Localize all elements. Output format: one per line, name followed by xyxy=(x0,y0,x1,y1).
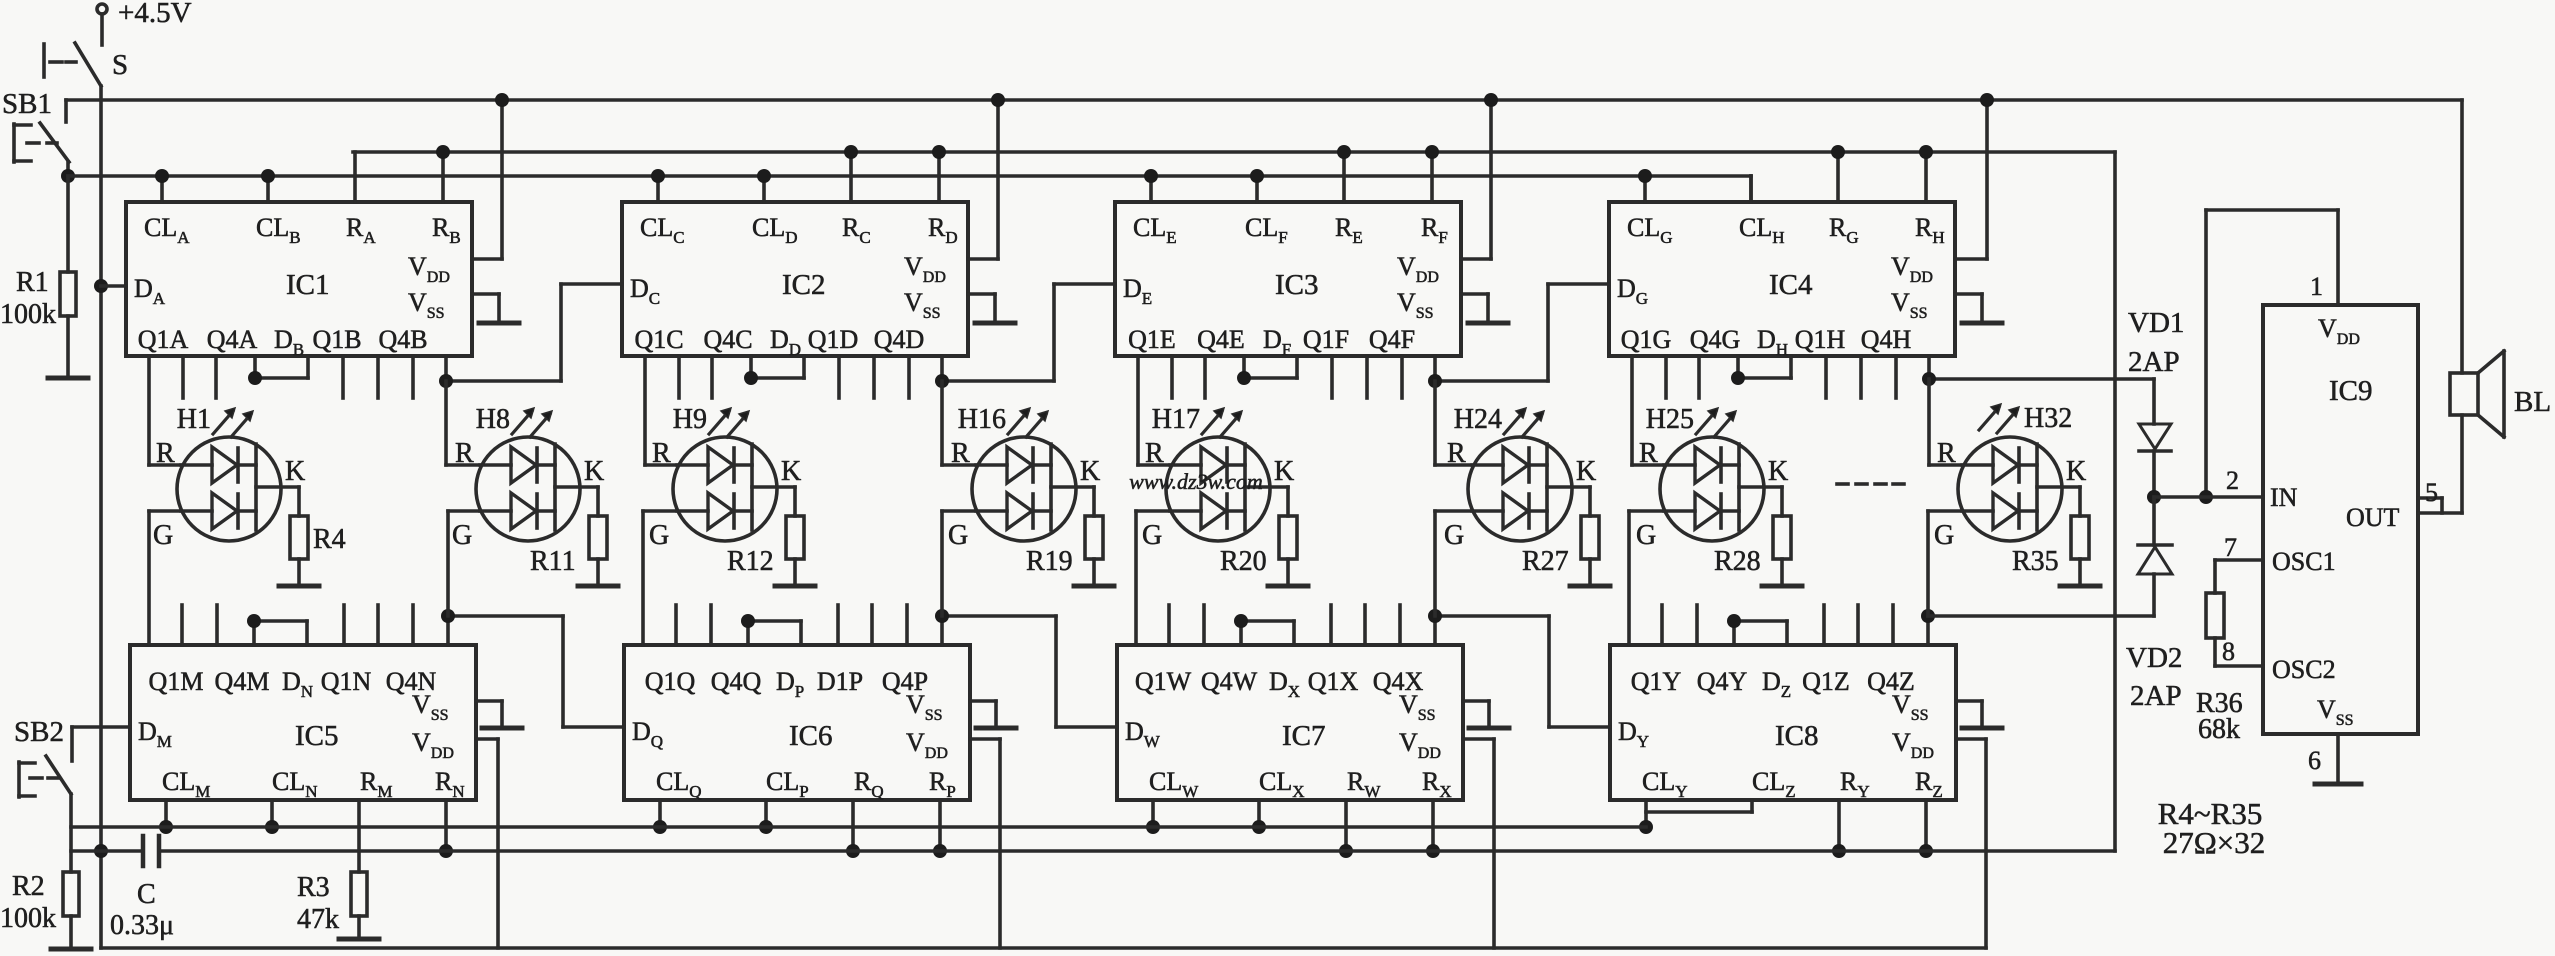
svg-text:K: K xyxy=(1274,456,1294,487)
svg-text:8: 8 xyxy=(2222,637,2235,666)
svg-text:G: G xyxy=(1934,520,1954,551)
svg-text:DD: DD xyxy=(770,325,801,359)
junction +4.5V to reset bus xyxy=(94,844,108,858)
wire IC4 CLG riser xyxy=(1643,176,1647,202)
wire IC9 pin6 VSS xyxy=(2336,734,2340,783)
wire H1 R input xyxy=(147,356,151,465)
junction DF xyxy=(1237,371,1251,385)
junction on clock bus xyxy=(159,820,173,834)
svg-text:DX: DX xyxy=(1269,667,1300,701)
svg-text:RZ: RZ xyxy=(1915,767,1943,801)
wire H9 G drop xyxy=(641,511,645,645)
svg-text:+4.5V: +4.5V xyxy=(118,0,192,29)
svg-text:H16: H16 xyxy=(958,404,1006,435)
junction on reset bus xyxy=(846,844,860,858)
resistor R2 xyxy=(63,872,79,916)
svg-text:CLC: CLC xyxy=(640,213,685,247)
diode VD2 xyxy=(2152,497,2156,545)
wire H16 K output xyxy=(1051,485,1094,489)
svg-text:CLM: CLM xyxy=(162,767,210,801)
svg-text:100k: 100k xyxy=(0,903,56,934)
ground xyxy=(2060,584,2100,589)
wire IC8 RZ drop xyxy=(1924,800,1928,851)
wire IC5 RN drop xyxy=(444,800,448,851)
svg-text:VSS: VSS xyxy=(1399,690,1436,724)
svg-text:RD: RD xyxy=(928,213,958,247)
svg-text:Q1W: Q1W xyxy=(1135,667,1192,696)
svg-text:2: 2 xyxy=(2226,466,2239,495)
wire IC8 VDD to supply rail xyxy=(1956,737,1986,741)
svg-text:C: C xyxy=(137,879,156,910)
wire IC7 RW drop xyxy=(1344,800,1348,851)
resistor R1 xyxy=(66,176,70,272)
svg-text:RB: RB xyxy=(432,213,461,247)
svg-text:27Ω×32: 27Ω×32 xyxy=(2163,825,2266,860)
svg-text:OSC1: OSC1 xyxy=(2272,547,2336,576)
svg-text:R2: R2 xyxy=(12,871,45,902)
svg-text:CLF: CLF xyxy=(1245,213,1288,247)
svg-text:G: G xyxy=(649,520,669,551)
LED H24 xyxy=(1468,437,1572,541)
wire IC6 CLQ drop xyxy=(658,800,662,827)
wire IC1 output stubs xyxy=(181,356,185,398)
node D_A junction xyxy=(94,279,108,293)
resistor R35 xyxy=(2071,516,2089,559)
wire IC4 output stubs xyxy=(1664,356,1668,398)
resistor R4 xyxy=(290,516,308,559)
junction xyxy=(2199,490,2213,504)
wire Q4 of IC5 to D of IC6 xyxy=(446,616,450,645)
wire H8 G drop xyxy=(446,511,450,616)
svg-text:DP: DP xyxy=(776,667,804,701)
wire H16 R input xyxy=(940,381,944,465)
svg-text:CLE: CLE xyxy=(1133,213,1177,247)
node IN junction xyxy=(2147,490,2161,504)
ground xyxy=(1074,584,1114,589)
svg-text:DC: DC xyxy=(630,274,660,308)
svg-text:VDD: VDD xyxy=(1891,252,1933,286)
svg-text:SB1: SB1 xyxy=(2,88,52,120)
node SB1/R1/CL-bus junction xyxy=(61,169,75,183)
wire IC5 CLM drop xyxy=(164,800,168,827)
IC IC1 xyxy=(126,202,472,356)
svg-text:RP: RP xyxy=(929,767,956,801)
junction RE on reset bus xyxy=(1337,145,1351,159)
wire IC4 DH feedback xyxy=(1736,356,1740,378)
wire H25 G drop xyxy=(1627,511,1631,645)
svg-text:Q1N: Q1N xyxy=(321,667,372,696)
svg-text:H17: H17 xyxy=(1152,404,1200,435)
junction on clock bus xyxy=(653,820,667,834)
junction DZ xyxy=(1727,614,1741,628)
wire IC8 DZ feedback xyxy=(1732,621,1736,645)
wire IC8 output stubs xyxy=(1660,605,1664,645)
junction RH on reset bus xyxy=(1919,145,1933,159)
wire H32 G drop xyxy=(1926,511,1930,616)
wire IC2 CLC riser xyxy=(656,176,660,202)
svg-text:VSS: VSS xyxy=(1892,690,1929,724)
svg-text:www.dz3w.com: www.dz3w.com xyxy=(1129,469,1263,494)
svg-text:CLY: CLY xyxy=(1642,767,1688,801)
LED H32 xyxy=(1958,437,2062,541)
LED H17 xyxy=(1166,437,1270,541)
junction on reset bus xyxy=(1832,844,1846,858)
svg-text:Q1Q: Q1Q xyxy=(645,667,696,696)
wire IC6 VDD to supply rail xyxy=(970,737,1000,741)
LED H25 xyxy=(1660,437,1764,541)
junction on clock bus xyxy=(1252,820,1266,834)
ground xyxy=(48,376,88,381)
svg-text:Q4Q: Q4Q xyxy=(711,667,762,696)
resistor R36 xyxy=(2206,593,2224,638)
wire IC8 VSS xyxy=(1956,699,1982,703)
svg-text:DF: DF xyxy=(1263,325,1291,359)
svg-text:IC8: IC8 xyxy=(1775,720,1819,752)
junction VDD on +4.5V bus xyxy=(991,93,1005,107)
wire OSC2 xyxy=(2215,664,2263,668)
svg-text:VDD: VDD xyxy=(1399,728,1441,762)
junction RD on reset bus xyxy=(932,145,946,159)
junction DN xyxy=(247,614,261,628)
wire IC1 CLA riser xyxy=(160,176,164,202)
junction DD xyxy=(744,371,758,385)
ground xyxy=(339,937,379,942)
wire H17 K output xyxy=(1245,485,1288,489)
svg-text:R3: R3 xyxy=(297,872,330,903)
svg-text:IC7: IC7 xyxy=(1282,720,1326,752)
svg-text:Q4G: Q4G xyxy=(1690,325,1741,354)
svg-text:RW: RW xyxy=(1347,767,1381,801)
svg-text:VDD: VDD xyxy=(408,252,450,286)
wire IC7 RX drop xyxy=(1431,800,1435,851)
svg-text:R20: R20 xyxy=(1220,546,1267,577)
svg-text:RY: RY xyxy=(1840,767,1870,801)
svg-text:R1: R1 xyxy=(16,267,49,298)
wire H9 G input xyxy=(643,509,677,513)
svg-text:RG: RG xyxy=(1829,213,1859,247)
svg-text:CLW: CLW xyxy=(1149,767,1199,801)
wire IC7 DX feedback xyxy=(1239,621,1243,645)
wire IC5 output stubs xyxy=(180,605,184,645)
LED H1 xyxy=(177,437,281,541)
svg-text:R19: R19 xyxy=(1026,546,1073,577)
resistor R20 xyxy=(1279,516,1297,559)
wire IC5 VSS xyxy=(476,699,502,703)
svg-text:VSS: VSS xyxy=(904,288,941,322)
svg-text:VDD: VDD xyxy=(2318,314,2360,348)
svg-text:Q1B: Q1B xyxy=(312,325,361,354)
wire H8 K output xyxy=(555,485,598,489)
resistor R3 xyxy=(351,872,367,916)
svg-text:VD1: VD1 xyxy=(2128,307,2184,339)
wire IC2 VSS xyxy=(968,292,995,296)
wire H9 R input xyxy=(643,356,647,465)
svg-text:0.33μ: 0.33μ xyxy=(110,910,174,941)
wire xyxy=(100,14,104,45)
svg-text:RQ: RQ xyxy=(854,767,884,801)
svg-text:RA: RA xyxy=(346,213,376,247)
wire Q4 of IC6 to D of IC7 xyxy=(940,616,944,645)
wire H17 G drop xyxy=(1134,511,1138,645)
svg-text:CLA: CLA xyxy=(144,213,190,247)
svg-text:RM: RM xyxy=(360,767,392,801)
IC IC5 xyxy=(130,645,476,800)
svg-text:H9: H9 xyxy=(673,404,707,435)
svg-text:DW: DW xyxy=(1125,717,1161,751)
junction on clock bus xyxy=(1146,820,1160,834)
svg-text:IC9: IC9 xyxy=(2329,375,2373,407)
resistor R12 xyxy=(786,516,804,559)
wire Q4 of IC7 to D of IC8 xyxy=(1433,616,1437,645)
svg-text:K: K xyxy=(1768,456,1788,487)
svg-text:CLP: CLP xyxy=(766,767,809,801)
wire IC6 VSS xyxy=(970,699,996,703)
junction VDD on +4.5V bus xyxy=(1980,93,1994,107)
svg-text:OSC2: OSC2 xyxy=(2272,655,2336,684)
svg-text:Q4D: Q4D xyxy=(874,325,925,354)
wire IC4 RH riser xyxy=(1924,152,1928,202)
svg-text:CLZ: CLZ xyxy=(1752,767,1796,801)
wire reset bus top xyxy=(353,150,2115,154)
wire H24 R input xyxy=(1433,381,1437,465)
svg-text:RC: RC xyxy=(842,213,871,247)
svg-text:IC3: IC3 xyxy=(1275,269,1319,301)
junction on clock bus xyxy=(1639,820,1653,834)
svg-text:VDD: VDD xyxy=(1397,252,1439,286)
junction VDD on +4.5V bus xyxy=(495,93,509,107)
wire IC4 VSS xyxy=(1955,292,1982,296)
svg-text:DE: DE xyxy=(1123,274,1152,308)
svg-text:Q1F: Q1F xyxy=(1303,325,1349,354)
junction on reset bus xyxy=(1919,844,1933,858)
svg-text:VSS: VSS xyxy=(408,288,445,322)
wire H9 K output xyxy=(752,485,795,489)
wire reset-bus link vertical xyxy=(2113,152,2117,851)
svg-text:VSS: VSS xyxy=(906,690,943,724)
svg-text:G: G xyxy=(1636,520,1656,551)
ground xyxy=(2315,782,2361,787)
svg-text:2AP: 2AP xyxy=(2130,680,2182,712)
power terminal +4.5V xyxy=(97,4,107,14)
svg-text:VDD: VDD xyxy=(904,252,946,286)
junction CLC on clock bus xyxy=(651,169,665,183)
svg-text:Q1H: Q1H xyxy=(1795,325,1846,354)
junction on reset bus xyxy=(1339,844,1353,858)
svg-text:DM: DM xyxy=(138,717,172,751)
ground xyxy=(1268,584,1308,589)
junction DB xyxy=(248,371,262,385)
wire IC6 CLP drop xyxy=(764,800,768,827)
svg-text:IC6: IC6 xyxy=(789,720,833,752)
svg-text:6: 6 xyxy=(2308,746,2321,775)
junction DP xyxy=(741,614,755,628)
svg-text:CLH: CLH xyxy=(1739,213,1785,247)
svg-text:Q4B: Q4B xyxy=(378,325,427,354)
junction Q4 output xyxy=(441,609,455,623)
svg-text:CLQ: CLQ xyxy=(656,767,702,801)
wire clock bus top xyxy=(68,174,1751,178)
svg-text:DQ: DQ xyxy=(632,717,663,751)
junction Q4 output xyxy=(439,374,453,388)
wire H25 G input xyxy=(1629,509,1664,513)
wire IC4 RG riser xyxy=(1836,152,1840,202)
ground xyxy=(578,584,618,589)
ground xyxy=(482,726,522,731)
svg-text:IC5: IC5 xyxy=(295,720,339,752)
wire IC1 VDD xyxy=(472,257,502,261)
svg-text:CLG: CLG xyxy=(1627,213,1673,247)
wire IC8 RY drop xyxy=(1837,800,1841,851)
junction RB on reset bus xyxy=(436,145,450,159)
svg-text:Q4F: Q4F xyxy=(1369,325,1415,354)
junction DH xyxy=(1731,371,1745,385)
ground xyxy=(51,947,91,952)
wire clock bus bottom xyxy=(71,825,1646,829)
svg-text:2AP: 2AP xyxy=(2128,346,2180,378)
svg-text:IN: IN xyxy=(2270,483,2298,512)
junction Q4 output xyxy=(1428,374,1442,388)
wire IC1 RA riser xyxy=(353,152,357,202)
svg-text:G: G xyxy=(1444,520,1464,551)
wire H32 R input xyxy=(1927,379,1931,465)
junction Q4 output xyxy=(935,609,949,623)
svg-text:DY: DY xyxy=(1618,717,1649,751)
svg-text:Q4C: Q4C xyxy=(703,325,752,354)
svg-text:DG: DG xyxy=(1617,274,1648,308)
LED H8 xyxy=(476,437,580,541)
svg-text:Q1Z: Q1Z xyxy=(1802,667,1850,696)
junction CLB on clock bus xyxy=(261,169,275,183)
capacitor C xyxy=(141,836,146,866)
svg-text:H25: H25 xyxy=(1646,404,1694,435)
wire speaker feed xyxy=(2460,100,2464,373)
resistor R27 xyxy=(1581,516,1599,559)
wire IC3 CLE riser xyxy=(1149,176,1153,202)
svg-text:G: G xyxy=(1142,520,1162,551)
svg-text:VD2: VD2 xyxy=(2126,642,2182,674)
wire IC1 DB feedback xyxy=(253,356,257,378)
diode VD1 xyxy=(2152,379,2156,424)
svg-text:G: G xyxy=(452,520,472,551)
svg-text:RE: RE xyxy=(1335,213,1363,247)
wire Q4Z of IC8 stub xyxy=(1926,616,1930,645)
wire IC6 DP feedback xyxy=(746,621,750,645)
junction CLD on clock bus xyxy=(757,169,771,183)
wire IC1 VSS xyxy=(472,292,499,296)
wire IC2 RD riser xyxy=(937,152,941,202)
wire H25 R input xyxy=(1630,356,1634,465)
wire Q4Z to diode VD2 xyxy=(1928,614,2154,618)
wire IC7 CLX drop xyxy=(1257,800,1261,827)
wire IC3 DF feedback xyxy=(1242,356,1246,378)
junction RG on reset bus xyxy=(1831,145,1845,159)
svg-text:H1: H1 xyxy=(177,404,211,435)
wire IN input xyxy=(2154,495,2263,499)
wire IC3 VDD xyxy=(1461,257,1491,261)
svg-text:DH: DH xyxy=(1757,325,1788,359)
wire H17 R input xyxy=(1136,356,1140,465)
svg-text:H24: H24 xyxy=(1454,404,1502,435)
wire IC3 RE riser xyxy=(1342,152,1346,202)
wire IC3 RF riser xyxy=(1430,152,1434,202)
junction on clock bus xyxy=(265,820,279,834)
wire IC7 VDD to supply rail xyxy=(1463,737,1494,741)
svg-text:Q1C: Q1C xyxy=(634,325,683,354)
IC IC4 xyxy=(1609,202,1955,356)
svg-text:7: 7 xyxy=(2224,533,2237,562)
resistor R11 xyxy=(589,516,607,559)
wire IC5 CLN drop xyxy=(270,800,274,827)
svg-text:Q4Y: Q4Y xyxy=(1697,667,1748,696)
svg-text:SB2: SB2 xyxy=(14,716,64,748)
svg-text:R27: R27 xyxy=(1522,546,1569,577)
svg-text:VDD: VDD xyxy=(412,728,454,762)
wire H24 G input xyxy=(1435,509,1472,513)
wire H24 K output xyxy=(1547,485,1590,489)
junction CLF on clock bus xyxy=(1250,169,1264,183)
svg-text:VSS: VSS xyxy=(1891,288,1928,322)
wire reset bus bottom xyxy=(71,849,143,853)
svg-text:Q1D: Q1D xyxy=(808,325,859,354)
junction RC on reset bus xyxy=(844,145,858,159)
svg-text:G: G xyxy=(948,520,968,551)
svg-text:Q1Y: Q1Y xyxy=(1631,667,1682,696)
junction Q4Z output xyxy=(1921,609,1935,623)
svg-text:DN: DN xyxy=(282,667,313,701)
svg-text:68k: 68k xyxy=(2198,714,2240,745)
wire IC3 CLF riser xyxy=(1255,176,1259,202)
IC IC3 xyxy=(1115,202,1461,356)
svg-text:Q4W: Q4W xyxy=(1201,667,1258,696)
junction on reset bus xyxy=(439,844,453,858)
wire IC7 VSS xyxy=(1463,699,1489,703)
wire OUT pin5 xyxy=(2418,496,2442,500)
wire IC6 RP drop xyxy=(938,800,942,851)
wire OSC1 xyxy=(2215,558,2263,562)
wire H32 K output xyxy=(2037,485,2080,489)
wire H1 G input xyxy=(149,509,181,513)
junction on reset bus xyxy=(1426,844,1440,858)
wire IC5 VDD to supply rail xyxy=(476,737,498,741)
junction on clock bus xyxy=(759,820,773,834)
svg-text:VSS: VSS xyxy=(1397,288,1434,322)
svg-text:Q4A: Q4A xyxy=(207,325,258,354)
wire IC2 RC riser xyxy=(849,152,853,202)
svg-text:VSS: VSS xyxy=(2317,695,2354,729)
svg-text:K: K xyxy=(1576,456,1596,487)
wire H16 G drop xyxy=(940,511,944,616)
svg-text:Q1A: Q1A xyxy=(138,325,189,354)
svg-text:DZ: DZ xyxy=(1762,667,1791,701)
svg-text:S: S xyxy=(112,49,128,81)
svg-text:OUT: OUT xyxy=(2346,503,2400,532)
ground xyxy=(1962,321,2002,326)
ground xyxy=(775,584,815,589)
dashed continuation marks xyxy=(1837,482,1848,486)
svg-text:R12: R12 xyxy=(727,546,774,577)
wire IC6 output stubs xyxy=(674,605,678,645)
svg-text:1: 1 xyxy=(2310,272,2323,301)
svg-text:Q1X: Q1X xyxy=(1308,667,1359,696)
wire Q4H of IC4 to diode VD1 xyxy=(1927,356,1931,379)
wire IC7 CLW drop xyxy=(1151,800,1155,827)
svg-text:IC4: IC4 xyxy=(1769,269,1813,301)
IC IC8 xyxy=(1610,645,1956,800)
svg-text:47k: 47k xyxy=(297,904,339,935)
wire IC4 CLH riser xyxy=(1749,176,1753,202)
wire D_A input xyxy=(101,284,126,288)
svg-text:RX: RX xyxy=(1422,767,1452,801)
